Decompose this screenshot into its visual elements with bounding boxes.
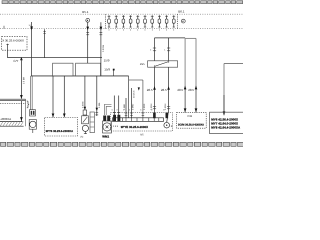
box corner top-right — [224, 64, 243, 112]
connector block X30 (left, clipped) — [0, 99, 30, 126]
wire continues inside connector — [20, 101, 23, 122]
dashed outline around connector bar — [111, 113, 173, 131]
relay module K1 (dashed box) — [2, 37, 27, 51]
motor pin wires — [113, 96, 120, 116]
tap 15/9 on rail2 — [104, 68, 114, 76]
svg-text:0.5GR: 0.5GR — [143, 104, 145, 110]
fuse f4 — [129, 15, 132, 30]
control unit N top rail — [31, 75, 129, 77]
svg-text:28.5: 28.5 — [147, 88, 153, 91]
wire x126 into bar — [123, 98, 127, 118]
left stack connector — [30, 110, 36, 116]
svg-text:3: 3 — [171, 125, 173, 128]
svg-text:1: 1 — [164, 49, 165, 51]
svg-text:0.5RD: 0.5RD — [132, 104, 134, 110]
legend box (part numbers) — [210, 112, 245, 133]
wire x131.5 into bar — [130, 88, 134, 118]
wire into 9PY6 (2) — [63, 76, 66, 117]
svg-text:0.5SW: 0.5SW — [82, 101, 84, 108]
dark pins switch wires — [153, 113, 168, 119]
dashed box 9PY6 — [45, 118, 78, 137]
fuse f1 — [108, 15, 111, 30]
relay contact box — [82, 116, 89, 124]
svg-text:MY7 42.64.0-2000X: MY7 42.64.0-2000X — [211, 122, 238, 125]
wire S1 pin2 (x168.6) — [164, 38, 170, 61]
svg-text:30.25.6 0-2000XA: 30.25.6 0-2000XA — [0, 118, 11, 121]
connector bar X1 — [113, 118, 164, 122]
module box above bar — [129, 80, 143, 118]
svg-text:C/Y: C/Y — [13, 60, 18, 63]
pump P1 — [82, 125, 88, 133]
svg-text:28.5: 28.5 — [188, 88, 194, 91]
bus line 30 (dotted, lower) — [0, 28, 243, 30]
svg-text:MY6 42.56.4-2000X: MY6 42.56.4-2000X — [211, 118, 238, 121]
sub-module box A — [53, 63, 73, 76]
wire to connector W1 (x21.4) — [20, 59, 25, 99]
motor M1 — [103, 121, 112, 133]
wire from fuse area to rail2 (x100.9) — [100, 22, 105, 76]
wire to relay (x84.9) — [82, 76, 86, 110]
svg-text:0.5BR: 0.5BR — [123, 104, 125, 110]
fuse f8 — [158, 15, 161, 30]
svg-text:(A): (A) — [80, 136, 83, 139]
wire x44.6 bus to rail1 — [43, 29, 45, 57]
svg-text:15/9: 15/9 — [104, 59, 110, 62]
svg-text:30.25.6: 30.25.6 — [133, 91, 135, 98]
svg-text:5: 5 — [140, 109, 141, 111]
svg-text:B6.1: B6.1 — [178, 10, 184, 13]
fuse f9 — [165, 15, 168, 30]
fuse f3 — [122, 15, 125, 30]
shield corners over motor pins — [104, 105, 111, 116]
top link wire — [155, 37, 186, 39]
svg-text:2: 2 — [150, 49, 151, 51]
switch S1 box — [140, 61, 178, 67]
wire from bus 30 down-left (x31.6) — [30, 22, 33, 76]
svg-text:3: 3 — [116, 109, 117, 111]
connector symbol right — [181, 19, 185, 23]
svg-text:15/9: 15/9 — [104, 68, 110, 71]
left stack pump — [29, 120, 36, 133]
svg-text:28.5: 28.5 — [161, 88, 167, 91]
narrow box right of relay — [90, 112, 94, 133]
top terminal strip band — [2, 1, 243, 4]
rail wire 15/9 (horizontal) — [20, 57, 102, 60]
svg-text:1N5: 1N5 — [140, 63, 145, 66]
svg-text:0.5BL: 0.5BL — [98, 102, 100, 108]
svg-text:2: 2 — [151, 109, 152, 111]
fuse box F1 (dashed outline) — [106, 14, 178, 28]
fuse f7 — [151, 15, 154, 30]
relay connector — [83, 110, 87, 115]
connector symbol left — [86, 18, 90, 22]
small mark inside module box — [138, 87, 140, 90]
svg-text:MY8 42.64.4-2000XA: MY8 42.64.4-2000XA — [211, 126, 240, 129]
bus line 15 (dotted, upper) — [0, 13, 243, 15]
wire into legend box — [223, 95, 226, 115]
svg-text:6: 6 — [163, 109, 164, 111]
wire S1 out 2 to N5 — [161, 67, 170, 122]
ticks on module edge x142.9 — [142, 104, 146, 116]
fuse f10 — [172, 15, 175, 30]
sub-module box B — [76, 63, 101, 76]
svg-text:0.5GN: 0.5GN — [164, 104, 166, 110]
svg-text:N5: N5 — [140, 134, 143, 137]
terminal circle N5 — [164, 122, 172, 128]
svg-text:0.5SW: 0.5SW — [102, 45, 105, 52]
wire x96.8 — [95, 76, 100, 116]
svg-text:3: 3 — [129, 109, 130, 111]
wire K1 to node C/Y — [8, 50, 22, 57]
svg-text:1 3 5: 1 3 5 — [113, 125, 118, 128]
wire into 9PY6 (1) — [52, 76, 55, 117]
wire R1 out 2 — [188, 86, 197, 113]
svg-text:5: 5 — [112, 109, 113, 111]
svg-text:SC/M 30.58.0-0200XA: SC/M 30.58.0-0200XA — [178, 123, 204, 126]
svg-text:30: 30 — [29, 24, 31, 26]
svg-text:X 30.25.6-0000X: X 30.25.6-0000X — [2, 39, 24, 42]
resistor R1 tall box — [185, 38, 196, 85]
svg-text:B5.1: B5.1 — [82, 10, 88, 13]
control unit N outline (left edge, double) — [31, 76, 33, 110]
motor connector pins (dark) — [103, 115, 120, 121]
svg-text:0.5 BR: 0.5 BR — [23, 77, 26, 84]
svg-text:9PY6 30.25.6-2000XA: 9PY6 30.25.6-2000XA — [46, 130, 74, 133]
svg-text:28.5: 28.5 — [177, 88, 183, 91]
control unit N right edge — [128, 76, 130, 118]
dashed box C/M — [177, 112, 207, 128]
wire S1 out 1 to bar — [147, 67, 156, 118]
ground bus bar (hatched) — [0, 122, 24, 127]
pin numbers above bar — [112, 109, 165, 111]
fuse f5 — [136, 15, 139, 30]
bottom terminal strip band — [1, 142, 244, 146]
fuse f6 — [144, 15, 147, 30]
svg-text:WM1: WM1 — [102, 135, 109, 138]
tick at left edge on bus line — [3, 26, 5, 29]
fuse f2 — [115, 15, 118, 30]
svg-text:C/M: C/M — [187, 115, 192, 118]
svg-text:}: } — [27, 100, 30, 109]
wire R1 out 1 — [177, 86, 186, 113]
svg-text:9PYE 30.25.6-2000X: 9PYE 30.25.6-2000X — [121, 126, 148, 129]
wire S1 pin1 (x154.5) — [150, 38, 156, 61]
wire from symbol to box B (x87.7) — [86, 22, 89, 63]
